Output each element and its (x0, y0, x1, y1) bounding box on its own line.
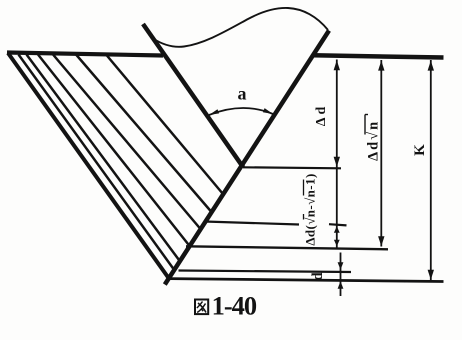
level line B extension bar (329, 224, 347, 225)
svg-text:Δd: Δd (314, 104, 329, 127)
caption character tu (hand-drawn) (195, 300, 208, 315)
dimension line d vertical (340, 253, 342, 297)
level line E (bottom, vertex level) (169, 279, 444, 282)
arrowhead Delta-d top (334, 60, 340, 70)
final left flank (thick, leftmost) (8, 53, 169, 279)
label K (rotated) (412, 144, 428, 156)
level line D (179, 271, 352, 273)
initial left flank (thick) (143, 24, 243, 167)
hatch flank line 2 (19, 55, 176, 272)
svg-text:Δd(√n-√n-1): Δd(√n-√n-1) (303, 173, 318, 245)
hatch flank line 6 (76, 55, 212, 213)
arrowhead alpha arc left (209, 109, 219, 115)
arrowhead alpha arc right (263, 108, 273, 114)
arrowhead small dim up (at bar) (334, 226, 340, 233)
hatch flank line 7 (106, 55, 223, 195)
label d (rotated) (310, 272, 326, 281)
arrowhead K bottom (428, 270, 434, 280)
angle alpha arc (209, 108, 273, 115)
wavy break line at top (153, 8, 328, 47)
label Delta-d(sqrt n - sqrt n-1) (rotated) (303, 173, 318, 245)
arrowhead K top (428, 61, 434, 71)
hatch flank line 4 (38, 55, 190, 247)
svg-text:d: d (310, 272, 326, 281)
arrowhead Delta-d-sqrt-n top (378, 61, 384, 71)
arrowhead small dim down (at C) (334, 240, 340, 247)
svg-text:a: a (238, 84, 247, 104)
left ground surface line (7, 53, 163, 56)
dimension line Delta-d sqrt(n) vertical (380, 60, 382, 247)
hatch flank line 5 (53, 55, 201, 230)
dimension line K vertical (430, 60, 432, 280)
label Delta-d (rotated) (314, 104, 329, 127)
right flank of V (thick) (165, 31, 329, 285)
svg-text:Δd√n: Δd√n (366, 120, 382, 161)
label Delta-d sqrt(n) (rotated) (365, 115, 382, 162)
hatch flank line 3 (27, 55, 181, 263)
dimension line Delta-d and Delta-d(sqrt n - sqrt n-1) vertical (336, 60, 338, 248)
arrowhead d-dim up (at E) (338, 281, 344, 289)
level line C (nth pass depth) (186, 246, 388, 249)
arrowhead d-dim down (at D) (338, 262, 344, 270)
arrowhead Delta-d bottom (334, 157, 340, 167)
arrowhead Delta-d-sqrt-n bottom (378, 236, 384, 246)
level line A (first pass depth) (243, 167, 341, 168)
svg-text:1-40: 1-40 (212, 290, 257, 320)
level line B (205, 222, 300, 225)
right ground surface line (313, 55, 444, 57)
svg-text:K: K (412, 144, 428, 156)
